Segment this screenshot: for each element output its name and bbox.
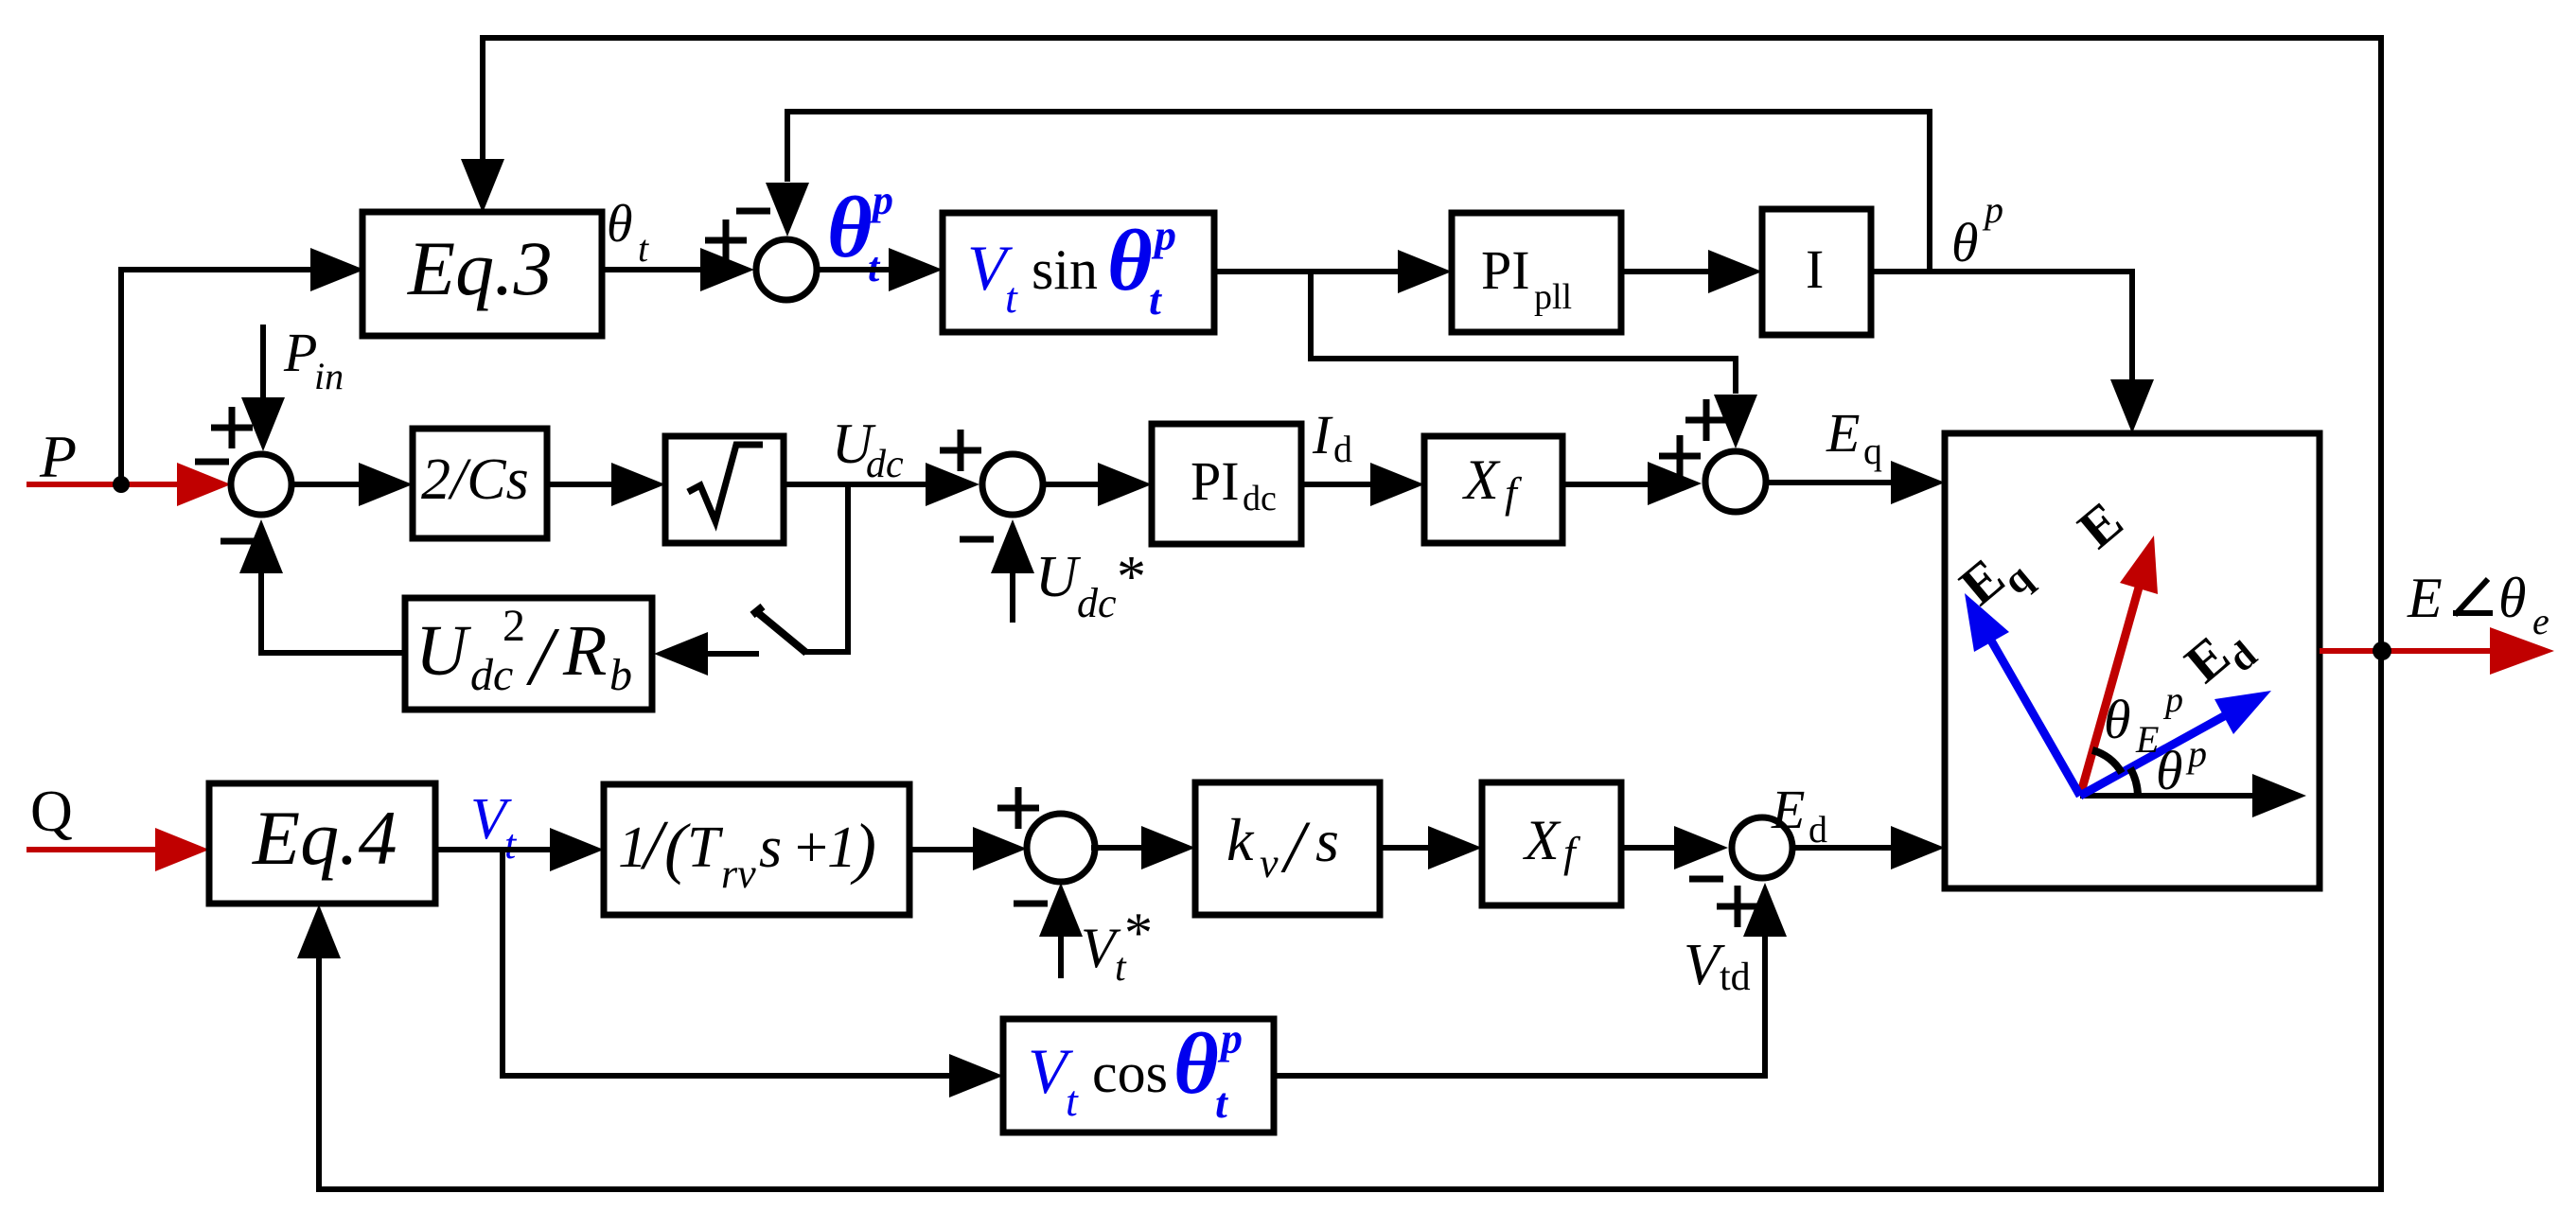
- svg-text:p: p: [869, 177, 893, 223]
- svg-text:θ: θ: [1173, 1015, 1219, 1112]
- arrowhead vector Eq: [1965, 593, 2009, 652]
- arrowhead into Xf2: [1428, 826, 1482, 869]
- wire outer feedback vertical right (E angle theta_e loop): [2378, 38, 2384, 1189]
- wire Udc^2/Rb output left: [258, 650, 405, 656]
- svg-text:s: s: [1315, 807, 1339, 874]
- svg-text:θ: θ: [1951, 212, 1979, 273]
- wire PLL feedback horizontal (theta p): [785, 109, 1932, 114]
- junction dot E output: [2373, 641, 2391, 660]
- svg-text:θ: θ: [2498, 567, 2526, 629]
- svg-text:I: I: [1312, 404, 1333, 465]
- svg-text:t: t: [1149, 275, 1162, 324]
- block PI_dc: [1152, 424, 1301, 544]
- summing junction P (dc link): [231, 454, 291, 515]
- svg-text:s: s: [759, 816, 782, 880]
- minus sign at V summing: [1014, 901, 1048, 907]
- arrowhead into P summing bottom: [239, 519, 283, 573]
- svg-text:p: p: [1982, 188, 2003, 231]
- svg-text:T: T: [687, 816, 724, 880]
- arrowhead Eq into big box: [1891, 461, 1945, 504]
- svg-text:+: +: [791, 816, 831, 880]
- plus sign at Udc summing: [940, 430, 981, 471]
- svg-text:PI: PI: [1481, 239, 1530, 301]
- wire Udc* input: [1010, 573, 1015, 623]
- svg-text:dc: dc: [1077, 580, 1117, 626]
- block PI_pll: [1452, 213, 1621, 332]
- wire branch horizontal to Eq summing: [1308, 356, 1738, 361]
- svg-text:2/Cs: 2/Cs: [421, 448, 529, 512]
- block Udc^2/Rb: [405, 598, 652, 710]
- svg-text:1: 1: [827, 816, 856, 880]
- wire P branch vertical: [118, 267, 124, 484]
- summing junction Ed: [1732, 817, 1792, 878]
- arrowhead red into Eq.4: [155, 828, 209, 871]
- block vector diagram (polar conversion): [1945, 433, 2320, 888]
- wire Eq summing to big box: [1766, 480, 1891, 485]
- arrowhead into PI_pll: [1398, 250, 1452, 293]
- svg-text:θ: θ: [827, 179, 873, 275]
- svg-text:p: p: [2162, 680, 2183, 720]
- block Eq.3: [362, 212, 602, 336]
- wire kv/s to Xf2: [1380, 845, 1428, 851]
- svg-text:p: p: [1151, 211, 1176, 259]
- arc theta^p: [2130, 768, 2138, 796]
- svg-text:rv: rv: [721, 851, 756, 897]
- arrowhead into theta summing left: [700, 248, 754, 291]
- summing junction Udc: [982, 454, 1043, 515]
- plus sign at P summing top: [211, 407, 253, 448]
- wire branch vertical into Eq summing: [1733, 356, 1738, 394]
- wire Vt* input: [1058, 937, 1064, 978]
- svg-text:Q: Q: [30, 780, 73, 844]
- arrowhead into I block: [1708, 250, 1762, 293]
- wire 2/Cs to sqrt: [547, 482, 611, 487]
- svg-text:I: I: [1806, 238, 1824, 300]
- svg-text:θ: θ: [2156, 740, 2183, 801]
- label Ed vector (rotated): [2174, 610, 2266, 704]
- block kv/s: [1195, 782, 1380, 915]
- block 2/Cs: [413, 429, 547, 538]
- wire outer feedback left vertical into Eq.3: [480, 35, 485, 161]
- switch blade: [752, 606, 806, 653]
- summing junction theta (PLL): [756, 239, 817, 300]
- arrowhead into 2/Cs: [359, 463, 413, 506]
- svg-text:t: t: [1066, 1077, 1079, 1125]
- block Xf (d axis): [1482, 782, 1621, 905]
- wire PI_pll to I block: [1621, 269, 1708, 274]
- svg-text:pll: pll: [1534, 277, 1572, 317]
- svg-text:U: U: [415, 611, 471, 691]
- label Eq vector (rotated): [1949, 533, 2040, 626]
- svg-text:θ: θ: [607, 195, 633, 254]
- arrowhead vector Ed: [2214, 691, 2271, 734]
- svg-text:t: t: [1005, 273, 1018, 322]
- wire Udc summing to PI_dc: [1043, 482, 1098, 487]
- wire Ed summing to big box: [1792, 845, 1891, 851]
- wire down into big box top: [2129, 269, 2135, 380]
- wire lag block to V summing: [909, 847, 973, 852]
- svg-text:θ: θ: [1107, 212, 1153, 308]
- arrowhead into V summing: [973, 827, 1027, 870]
- wire Eq.4 to lag block: [435, 847, 550, 852]
- arrowhead E output (red): [2490, 627, 2554, 675]
- wire Q input (red): [26, 847, 155, 852]
- arrowhead into Eq summing left: [1648, 462, 1702, 505]
- arrowhead into Eq.3 left: [310, 248, 364, 291]
- arrowhead P_in into summing top: [241, 397, 285, 451]
- summing junction V: [1027, 814, 1095, 882]
- svg-text:*: *: [1117, 545, 1146, 609]
- wire PLL feedback vertical right: [1927, 109, 1932, 272]
- svg-text:PI: PI: [1191, 450, 1240, 512]
- wire Xf to Eq summing: [1562, 482, 1648, 487]
- arrowhead into Udc^2/Rb right: [654, 632, 708, 676]
- wire Vt branch to Vt cos block: [500, 1073, 949, 1079]
- svg-text:R: R: [562, 611, 607, 691]
- arrowhead into Eq.3 top: [461, 159, 504, 213]
- arrowhead into Eq.4 bottom: [297, 904, 341, 958]
- minus sign at Ed summing: [1689, 876, 1723, 883]
- svg-text:td: td: [1720, 956, 1751, 999]
- minus sign at P summing left: [195, 459, 229, 465]
- svg-text:dc: dc: [1243, 479, 1277, 518]
- minus sign at Udc summing: [960, 536, 994, 543]
- wire Vtd vertical into Ed summing bottom: [1762, 937, 1768, 1079]
- plus sign at Ed summing: [1717, 886, 1758, 927]
- vector Ed (blue): [2080, 716, 2224, 796]
- svg-text:*: *: [1124, 902, 1153, 964]
- svg-text:P: P: [283, 322, 317, 383]
- svg-text:E: E: [1771, 779, 1805, 840]
- svg-text:X: X: [1462, 448, 1501, 511]
- arrowhead into theta summing top: [766, 183, 809, 237]
- arrowhead into Vt sin block: [889, 248, 943, 291]
- wire switch to Udc^2/Rb arrow: [708, 651, 759, 657]
- wire sqrt to Udc summing: [784, 482, 926, 487]
- svg-text:d: d: [1333, 428, 1352, 470]
- svg-text:q: q: [1863, 430, 1882, 472]
- block I (integrator): [1762, 209, 1871, 335]
- block sqrt: [665, 436, 784, 543]
- svg-text:P: P: [39, 423, 77, 490]
- arrowhead into kv/s: [1141, 826, 1195, 869]
- plus sign upper at Eq summing: [1685, 399, 1727, 441]
- wire V summing to kv/s: [1091, 845, 1141, 851]
- wire I output to corner: [1871, 269, 2135, 274]
- svg-text:): ): [850, 810, 876, 886]
- plus sign at V summing: [997, 787, 1039, 829]
- svg-text:θ: θ: [2104, 689, 2131, 750]
- block 1/(Trv s+1): [604, 784, 909, 915]
- wire up into P summing bottom: [258, 573, 264, 656]
- wire theta summing to Vt sin block: [817, 267, 889, 272]
- svg-text:t: t: [504, 821, 518, 868]
- wire P summing to 2/Cs: [291, 482, 359, 487]
- arc theta_E^p: [2092, 750, 2122, 773]
- wire PLL feedback vertical left into theta summing: [785, 109, 790, 182]
- svg-text:t: t: [1215, 1079, 1228, 1127]
- wire P_in input: [260, 325, 266, 397]
- svg-text:k: k: [1226, 806, 1255, 873]
- arrowhead into Ed summing left: [1674, 826, 1728, 869]
- vector E (red): [2080, 588, 2139, 796]
- arrowhead into sqrt: [611, 463, 665, 506]
- svg-text:sin: sin: [1032, 238, 1098, 301]
- plus sign left at Eq summing: [1659, 435, 1701, 477]
- svg-text:dc: dc: [470, 650, 513, 700]
- radical sign: [688, 445, 763, 521]
- svg-text:dc: dc: [866, 443, 904, 486]
- svg-text:e: e: [2532, 600, 2550, 642]
- wire Vt branch down: [500, 850, 505, 1079]
- minus sign at P summing bottom: [221, 538, 255, 545]
- wire Eq.3 to theta summing: [602, 267, 700, 272]
- arrowhead into Vt cos block: [949, 1054, 1003, 1097]
- block Xf (q axis): [1424, 436, 1562, 543]
- wire branch down from Vt sin output: [1308, 272, 1314, 359]
- wire into Eq.3 left: [118, 267, 310, 272]
- wire Vt sin to PI_pll: [1214, 269, 1398, 274]
- svg-text:2: 2: [503, 601, 525, 651]
- arrowhead Ed into big box: [1891, 826, 1945, 869]
- arrowhead into Eq summing top: [1714, 395, 1757, 448]
- svg-text:d: d: [1808, 808, 1827, 851]
- svg-text:t: t: [638, 227, 649, 270]
- arrowhead into PI_dc: [1098, 463, 1152, 506]
- svg-text:in: in: [314, 355, 344, 397]
- svg-text:X: X: [1523, 809, 1561, 871]
- arrowhead into big box top: [2110, 379, 2154, 433]
- svg-text:v: v: [1260, 840, 1279, 887]
- block Vt sin theta_t^p: [943, 213, 1214, 332]
- svg-text:Eq.4: Eq.4: [252, 795, 397, 881]
- block Vt cos theta_t^p: [1003, 1019, 1274, 1132]
- wire E output (red): [2320, 648, 2491, 654]
- wire bottom feedback vertical into Eq.4: [316, 957, 322, 1192]
- plus sign at theta summing: [705, 219, 747, 261]
- arrowhead red into P summing: [177, 463, 231, 506]
- arrowhead vector E: [2120, 535, 2158, 594]
- arrowhead Vt* into V summing bottom: [1039, 883, 1083, 937]
- svg-text:b: b: [609, 650, 632, 700]
- wire P input (red): [26, 482, 177, 487]
- vector Eq (blue): [1991, 641, 2080, 796]
- wire Udc branch down to switch: [804, 484, 851, 652]
- wire Vt cos output to Vtd corner: [1274, 1073, 1768, 1079]
- wire PI_dc to Xf: [1301, 482, 1370, 487]
- wire outer feedback top horizontal: [480, 35, 2384, 41]
- minus sign at theta summing: [736, 208, 770, 215]
- svg-text:E: E: [2407, 567, 2443, 629]
- label E vector (rotated): [2067, 489, 2134, 560]
- arrowhead into Xf: [1370, 463, 1424, 506]
- arrowhead into Udc summing: [926, 463, 979, 506]
- arrowhead into lag block: [550, 828, 604, 871]
- arrowhead Udc* into summing bottom: [991, 519, 1034, 573]
- svg-text:E: E: [1826, 402, 1860, 464]
- block Eq.4: [209, 783, 435, 904]
- wire bottom feedback horizontal: [319, 1186, 2384, 1192]
- summing junction Eq: [1705, 451, 1766, 512]
- svg-text:cos: cos: [1092, 1042, 1168, 1104]
- svg-text:p: p: [1217, 1014, 1243, 1062]
- svg-text:Eq.3: Eq.3: [407, 225, 553, 311]
- arrowhead Vtd into Ed summing: [1743, 883, 1787, 937]
- wire Xf2 to Ed summing: [1621, 845, 1674, 851]
- svg-text:U: U: [1035, 545, 1082, 609]
- angle symbol: [2453, 579, 2493, 615]
- junction dot P branch: [113, 476, 130, 493]
- arrowhead x-axis: [2252, 774, 2306, 817]
- vector x-axis theta p reference: [2080, 793, 2252, 799]
- svg-text:p: p: [2185, 732, 2207, 775]
